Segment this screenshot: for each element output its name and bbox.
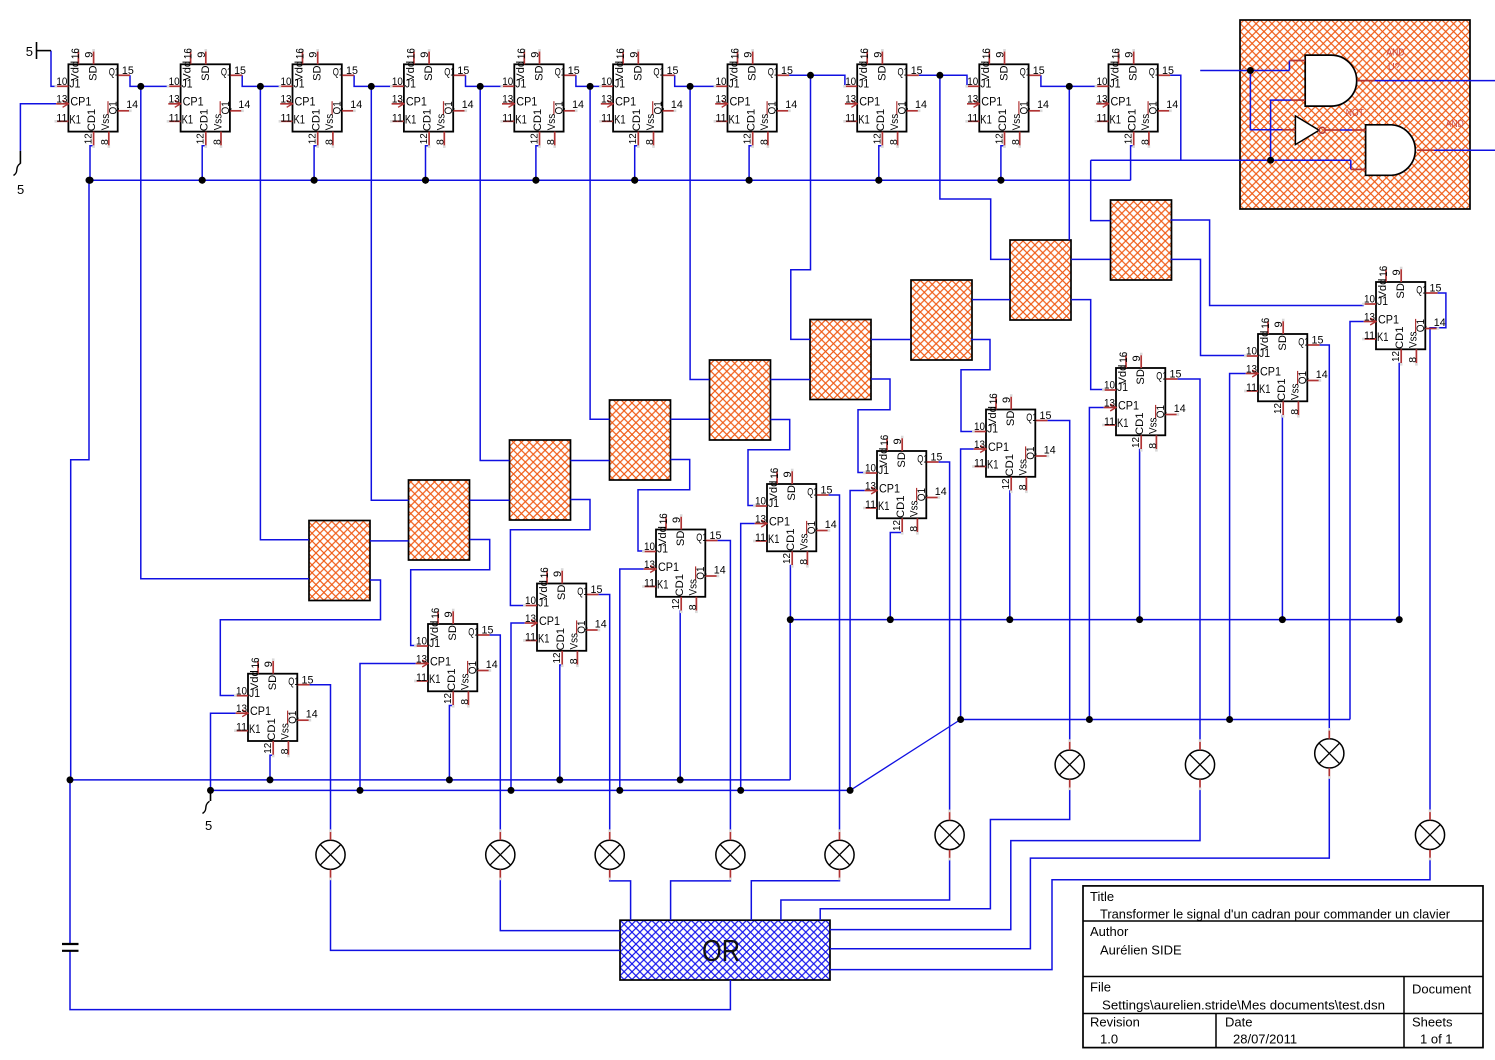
svg-text:Q1: Q1 — [1025, 446, 1037, 459]
svg-text:Vss: Vss — [1148, 417, 1160, 434]
svg-text:16: 16 — [879, 435, 891, 446]
svg-text:K1: K1 — [729, 115, 741, 127]
svg-text:15: 15 — [591, 584, 603, 596]
svg-text:11: 11 — [525, 632, 536, 644]
svg-text:12: 12 — [551, 652, 563, 663]
svg-text:9: 9 — [1273, 321, 1285, 327]
svg-text:Vdd: Vdd — [249, 670, 261, 690]
svg-text:15: 15 — [1430, 283, 1442, 295]
svg-text:10: 10 — [1104, 380, 1115, 392]
svg-text:15: 15 — [710, 530, 722, 542]
svg-text:Q1: Q1 — [555, 67, 566, 79]
svg-text:14: 14 — [572, 99, 584, 111]
svg-text:Vss: Vss — [759, 113, 771, 130]
svg-text:14: 14 — [1434, 317, 1446, 329]
svg-text:9: 9 — [892, 438, 904, 444]
svg-text:11: 11 — [644, 578, 655, 590]
svg-text:K1: K1 — [405, 115, 417, 127]
svg-text:14: 14 — [350, 99, 362, 111]
svg-text:Vdd: Vdd — [858, 61, 870, 81]
svg-text:AND: AND — [1446, 118, 1464, 130]
svg-text:9: 9 — [196, 52, 208, 58]
svg-text:15: 15 — [781, 65, 793, 77]
svg-text:Q1: Q1 — [916, 488, 928, 501]
svg-text:8: 8 — [1289, 409, 1301, 415]
svg-text:1 of 1: 1 of 1 — [1420, 1032, 1453, 1047]
svg-text:8: 8 — [1017, 484, 1029, 490]
svg-text:Q1: Q1 — [695, 566, 707, 579]
svg-text:8: 8 — [435, 139, 447, 145]
svg-text:8: 8 — [798, 559, 810, 565]
svg-text:Vss: Vss — [280, 723, 292, 740]
svg-text:Vss: Vss — [1290, 383, 1302, 400]
svg-text:13: 13 — [236, 703, 247, 715]
svg-text:11: 11 — [416, 672, 427, 684]
svg-text:12: 12 — [83, 133, 95, 144]
svg-text:11: 11 — [1364, 330, 1375, 342]
svg-text:SD: SD — [786, 485, 798, 501]
svg-text:Q1: Q1 — [1416, 284, 1427, 296]
svg-text:8: 8 — [1147, 443, 1159, 449]
svg-text:16: 16 — [658, 513, 670, 524]
svg-text:Vdd: Vdd — [538, 580, 550, 600]
svg-text:9: 9 — [782, 471, 794, 477]
svg-text:AND: AND — [1386, 47, 1404, 59]
svg-text:16: 16 — [70, 48, 82, 59]
svg-text:16: 16 — [406, 48, 418, 59]
svg-text:Vdd: Vdd — [728, 61, 740, 81]
svg-text:15: 15 — [457, 65, 469, 77]
svg-text:12: 12 — [418, 133, 430, 144]
svg-text:13: 13 — [716, 94, 727, 106]
svg-text:Q1: Q1 — [554, 101, 566, 114]
svg-text:SD: SD — [896, 452, 908, 468]
svg-text:9: 9 — [872, 52, 884, 58]
svg-text:9: 9 — [1131, 355, 1143, 361]
svg-text:14: 14 — [462, 99, 474, 111]
svg-text:Settings\aurelien.stride\Mes d: Settings\aurelien.stride\Mes documents\t… — [1102, 998, 1385, 1013]
svg-text:CP1: CP1 — [516, 97, 537, 109]
svg-text:Q1: Q1 — [768, 67, 779, 79]
svg-text:Vdd: Vdd — [614, 61, 626, 81]
svg-text:14: 14 — [1166, 99, 1178, 111]
svg-text:10: 10 — [865, 463, 876, 475]
svg-text:K1: K1 — [294, 115, 306, 127]
svg-text:8: 8 — [211, 139, 223, 145]
svg-text:SD: SD — [999, 65, 1011, 81]
svg-text:11: 11 — [502, 112, 513, 124]
svg-text:15: 15 — [1040, 410, 1052, 422]
svg-text:10: 10 — [845, 76, 856, 88]
svg-text:K1: K1 — [768, 534, 780, 546]
svg-text:Vdd: Vdd — [1377, 279, 1389, 299]
svg-text:Q1: Q1 — [468, 626, 479, 638]
svg-text:14: 14 — [1316, 369, 1328, 381]
svg-text:Q1: Q1 — [696, 532, 707, 544]
svg-text:K1: K1 — [1377, 332, 1389, 344]
svg-text:14: 14 — [126, 99, 138, 111]
svg-text:12: 12 — [781, 553, 793, 564]
svg-text:Vdd: Vdd — [878, 448, 890, 468]
svg-text:15: 15 — [1162, 65, 1174, 77]
svg-text:Q1: Q1 — [1156, 370, 1167, 382]
svg-text:10: 10 — [392, 76, 403, 88]
svg-text:K1: K1 — [657, 580, 669, 592]
svg-text:9: 9 — [552, 571, 564, 577]
svg-text:Vdd: Vdd — [405, 61, 417, 81]
svg-text:14: 14 — [825, 519, 837, 531]
svg-text:SD: SD — [423, 65, 435, 81]
svg-text:CP1: CP1 — [981, 97, 1002, 109]
svg-text:11: 11 — [716, 112, 727, 124]
svg-text:CD1: CD1 — [446, 669, 458, 692]
svg-text:CP1: CP1 — [879, 483, 900, 495]
svg-text:SD: SD — [1128, 65, 1140, 81]
svg-text:15: 15 — [482, 625, 494, 637]
svg-text:13: 13 — [502, 94, 513, 106]
svg-text:14: 14 — [714, 564, 726, 576]
svg-text:CD1: CD1 — [86, 109, 98, 132]
svg-text:CD1: CD1 — [266, 718, 278, 741]
svg-text:13: 13 — [845, 94, 856, 106]
svg-text:Q1: Q1 — [917, 453, 928, 465]
svg-text:15: 15 — [821, 485, 833, 497]
svg-text:8: 8 — [1010, 139, 1022, 145]
svg-text:Vdd: Vdd — [1259, 331, 1271, 351]
svg-text:CP1: CP1 — [1378, 314, 1399, 326]
svg-text:Vdd: Vdd — [657, 526, 669, 546]
svg-text:12: 12 — [195, 133, 207, 144]
svg-text:10: 10 — [56, 76, 67, 88]
svg-text:Q1: Q1 — [332, 101, 344, 114]
svg-text:Q1: Q1 — [221, 67, 232, 79]
svg-text:Vss: Vss — [324, 113, 336, 130]
svg-text:K1: K1 — [249, 724, 261, 736]
svg-text:14: 14 — [785, 99, 797, 111]
svg-text:CP1: CP1 — [1111, 97, 1132, 109]
svg-text:10: 10 — [601, 76, 612, 88]
svg-text:Q1: Q1 — [1415, 319, 1427, 332]
svg-text:11: 11 — [56, 112, 67, 124]
svg-text:CP1: CP1 — [859, 97, 880, 109]
svg-text:16: 16 — [539, 567, 551, 578]
svg-text:11: 11 — [1246, 382, 1257, 394]
svg-text:9: 9 — [443, 611, 455, 617]
svg-text:5: 5 — [17, 182, 24, 197]
svg-text:Q1: Q1 — [467, 661, 479, 674]
svg-text:Vss: Vss — [688, 579, 700, 596]
svg-text:14: 14 — [1044, 444, 1056, 456]
svg-text:Title: Title — [1090, 889, 1114, 904]
svg-text:CP1: CP1 — [183, 97, 204, 109]
svg-text:8: 8 — [568, 658, 580, 664]
svg-text:K1: K1 — [1110, 115, 1122, 127]
svg-text:Vdd: Vdd — [768, 481, 780, 501]
svg-text:Vss: Vss — [212, 113, 224, 130]
svg-text:SD: SD — [1395, 283, 1407, 299]
svg-text:CD1: CD1 — [631, 109, 643, 132]
svg-text:9: 9 — [263, 661, 275, 667]
svg-text:8: 8 — [323, 139, 335, 145]
svg-text:11: 11 — [967, 112, 978, 124]
svg-text:9: 9 — [743, 52, 755, 58]
svg-text:10: 10 — [169, 76, 180, 88]
svg-text:12: 12 — [1272, 403, 1284, 414]
svg-text:12: 12 — [871, 133, 883, 144]
svg-text:SD: SD — [447, 625, 459, 641]
svg-text:12: 12 — [262, 743, 274, 754]
svg-text:11: 11 — [845, 112, 856, 124]
svg-text:13: 13 — [56, 94, 67, 106]
svg-text:K1: K1 — [1259, 384, 1271, 396]
svg-text:CP1: CP1 — [250, 706, 271, 718]
svg-text:Vdd: Vdd — [987, 406, 999, 426]
svg-text:13: 13 — [525, 613, 536, 625]
svg-text:Vss: Vss — [799, 533, 811, 550]
svg-text:1.0: 1.0 — [1100, 1032, 1118, 1047]
svg-text:8: 8 — [459, 699, 471, 705]
svg-text:9: 9 — [1391, 269, 1403, 275]
svg-text:SD: SD — [632, 65, 644, 81]
svg-text:14: 14 — [595, 618, 607, 630]
svg-text:16: 16 — [430, 608, 442, 619]
svg-text:K1: K1 — [429, 674, 441, 686]
svg-text:Q1: Q1 — [1148, 101, 1160, 114]
svg-text:CP1: CP1 — [615, 97, 636, 109]
svg-text:9: 9 — [995, 52, 1007, 58]
svg-text:13: 13 — [1364, 311, 1375, 323]
svg-text:Vss: Vss — [1140, 113, 1152, 130]
svg-text:Q1: Q1 — [1020, 67, 1031, 79]
svg-text:SD: SD — [267, 675, 279, 691]
svg-text:Q1: Q1 — [220, 101, 232, 114]
svg-text:10: 10 — [716, 76, 727, 88]
svg-text:13: 13 — [967, 94, 978, 106]
svg-text:16: 16 — [859, 48, 871, 59]
svg-text:CD1: CD1 — [997, 109, 1009, 132]
svg-text:SD: SD — [200, 65, 212, 81]
svg-text:Q1: Q1 — [576, 620, 588, 633]
svg-text:11: 11 — [281, 112, 292, 124]
svg-text:Sheets: Sheets — [1412, 1015, 1453, 1030]
svg-text:16: 16 — [981, 48, 993, 59]
svg-text:OR: OR — [702, 933, 740, 968]
svg-text:10: 10 — [644, 541, 655, 553]
svg-text:13: 13 — [1246, 363, 1257, 375]
svg-text:SD: SD — [312, 65, 324, 81]
svg-text:CP1: CP1 — [406, 97, 427, 109]
svg-text:CD1: CD1 — [1394, 327, 1406, 350]
svg-text:Vss: Vss — [436, 113, 448, 130]
svg-text:12: 12 — [1390, 351, 1402, 362]
svg-text:Vdd: Vdd — [182, 61, 194, 81]
svg-text:Q1: Q1 — [288, 676, 299, 688]
svg-text:Q1: Q1 — [577, 586, 588, 598]
svg-text:9: 9 — [84, 52, 96, 58]
svg-text:14: 14 — [1174, 403, 1186, 415]
svg-text:12: 12 — [742, 133, 754, 144]
svg-text:10: 10 — [1097, 76, 1108, 88]
svg-text:5: 5 — [205, 818, 212, 833]
svg-text:CP1: CP1 — [295, 97, 316, 109]
svg-text:16: 16 — [1110, 48, 1122, 59]
svg-text:13: 13 — [281, 94, 292, 106]
svg-text:CD1: CD1 — [198, 109, 210, 132]
svg-text:12: 12 — [1123, 133, 1135, 144]
svg-text:12: 12 — [993, 133, 1005, 144]
svg-text:15: 15 — [931, 452, 943, 464]
svg-text:CD1: CD1 — [422, 109, 434, 132]
svg-text:Vdd: Vdd — [515, 61, 527, 81]
svg-text:15: 15 — [302, 674, 314, 686]
svg-text:Q1: Q1 — [287, 711, 299, 724]
svg-text:8: 8 — [1407, 357, 1419, 363]
svg-text:16: 16 — [729, 48, 741, 59]
svg-text:K1: K1 — [182, 115, 194, 127]
svg-text:12: 12 — [627, 133, 639, 144]
svg-text:11: 11 — [601, 112, 612, 124]
svg-text:11: 11 — [236, 722, 247, 734]
svg-text:11: 11 — [1104, 416, 1115, 428]
svg-text:10: 10 — [974, 421, 985, 433]
svg-text:12: 12 — [442, 693, 454, 704]
svg-text:K1: K1 — [980, 115, 992, 127]
svg-text:28/07/2011: 28/07/2011 — [1233, 1032, 1297, 1047]
svg-text:Vdd: Vdd — [980, 61, 992, 81]
svg-text:CP1: CP1 — [730, 97, 751, 109]
svg-text:8: 8 — [1139, 139, 1151, 145]
svg-text:Transformer le signal d'un cad: Transformer le signal d'un cadran pour c… — [1100, 906, 1451, 921]
svg-text:Q1: Q1 — [767, 101, 779, 114]
svg-text:Vdd: Vdd — [1109, 61, 1121, 81]
svg-text:15: 15 — [667, 65, 679, 77]
svg-text:9: 9 — [671, 517, 683, 523]
svg-text:Q1: Q1 — [807, 486, 818, 498]
svg-text:15: 15 — [346, 65, 358, 77]
svg-text:Vss: Vss — [645, 113, 657, 130]
svg-text:8: 8 — [687, 604, 699, 610]
svg-text:Author: Author — [1090, 924, 1129, 939]
svg-text:15: 15 — [568, 65, 580, 77]
svg-text:Vdd: Vdd — [429, 621, 441, 641]
svg-text:16: 16 — [615, 48, 627, 59]
svg-text:File: File — [1090, 980, 1111, 995]
svg-text:CD1: CD1 — [310, 109, 322, 132]
svg-text:Vdd: Vdd — [293, 61, 305, 81]
svg-text:SD: SD — [747, 65, 759, 81]
svg-text:13: 13 — [1097, 94, 1108, 106]
svg-text:CP1: CP1 — [988, 442, 1009, 454]
svg-text:CP1: CP1 — [1118, 400, 1139, 412]
svg-text:9: 9 — [530, 52, 542, 58]
svg-text:12: 12 — [528, 133, 540, 144]
svg-text:16: 16 — [516, 48, 528, 59]
svg-text:8: 8 — [644, 139, 656, 145]
svg-text:Q1: Q1 — [108, 101, 120, 114]
svg-text:10: 10 — [525, 595, 536, 607]
svg-text:10: 10 — [755, 496, 766, 508]
svg-text:SD: SD — [88, 65, 100, 81]
svg-text:CD1: CD1 — [555, 628, 567, 651]
svg-text:Q1: Q1 — [109, 67, 120, 79]
svg-text:CD1: CD1 — [875, 109, 887, 132]
svg-text:11: 11 — [392, 112, 403, 124]
svg-text:11: 11 — [974, 458, 985, 470]
svg-text:12: 12 — [307, 133, 319, 144]
svg-text:14: 14 — [306, 709, 318, 721]
svg-text:CP1: CP1 — [70, 97, 91, 109]
svg-text:NOT: NOT — [1346, 107, 1364, 119]
svg-text:9: 9 — [419, 52, 431, 58]
svg-text:8: 8 — [908, 526, 920, 532]
svg-text:K1: K1 — [1117, 418, 1129, 430]
svg-text:SD: SD — [1005, 411, 1017, 427]
svg-text:16: 16 — [250, 658, 262, 669]
svg-text:Aurélien SIDE: Aurélien SIDE — [1100, 943, 1182, 958]
svg-text:16: 16 — [294, 48, 306, 59]
svg-text:Vss: Vss — [1408, 331, 1420, 348]
svg-text:Date: Date — [1225, 1015, 1252, 1030]
svg-text:14: 14 — [238, 99, 250, 111]
svg-text:15: 15 — [122, 65, 134, 77]
svg-text:12: 12 — [670, 598, 682, 609]
svg-text:SD: SD — [1277, 335, 1289, 351]
svg-text:8: 8 — [279, 748, 291, 754]
svg-text:Q1: Q1 — [653, 67, 664, 79]
svg-text:10: 10 — [1246, 346, 1257, 358]
svg-text:CD1: CD1 — [1004, 454, 1016, 477]
svg-text:K1: K1 — [878, 501, 890, 513]
svg-text:K1: K1 — [69, 115, 81, 127]
svg-text:Q1: Q1 — [1155, 405, 1167, 418]
svg-text:Q1: Q1 — [444, 67, 455, 79]
svg-text:14: 14 — [671, 99, 683, 111]
svg-text:CD1: CD1 — [745, 109, 757, 132]
svg-text:14: 14 — [915, 99, 927, 111]
svg-text:14: 14 — [935, 486, 947, 498]
svg-text:CP1: CP1 — [769, 516, 790, 528]
svg-text:8: 8 — [758, 139, 770, 145]
svg-text:14: 14 — [486, 659, 498, 671]
svg-text:Q1: Q1 — [652, 101, 664, 114]
svg-text:Vdd: Vdd — [69, 61, 81, 81]
svg-text:9: 9 — [628, 52, 640, 58]
svg-text:CD1: CD1 — [1276, 379, 1288, 402]
svg-text:15: 15 — [1033, 65, 1045, 77]
svg-text:Revision: Revision — [1090, 1015, 1140, 1030]
svg-text:CD1: CD1 — [895, 496, 907, 519]
svg-text:Vss: Vss — [1011, 113, 1023, 130]
svg-text:13: 13 — [601, 94, 612, 106]
svg-text:Vss: Vss — [889, 113, 901, 130]
svg-text:15: 15 — [234, 65, 246, 77]
svg-text:13: 13 — [1104, 397, 1115, 409]
svg-text:Q1: Q1 — [1298, 336, 1309, 348]
svg-text:Vss: Vss — [546, 113, 558, 130]
svg-text:12: 12 — [1000, 478, 1012, 489]
svg-text:9: 9 — [1001, 397, 1013, 403]
svg-text:10: 10 — [281, 76, 292, 88]
svg-text:CD1: CD1 — [1134, 413, 1146, 436]
svg-text:K1: K1 — [987, 460, 999, 472]
svg-text:Q1: Q1 — [333, 67, 344, 79]
svg-text:13: 13 — [169, 94, 180, 106]
svg-text:Vss: Vss — [909, 500, 921, 517]
svg-text:5: 5 — [26, 44, 33, 59]
svg-text:SD: SD — [876, 65, 888, 81]
svg-text:15: 15 — [1170, 369, 1182, 381]
svg-text:16: 16 — [1260, 318, 1272, 329]
